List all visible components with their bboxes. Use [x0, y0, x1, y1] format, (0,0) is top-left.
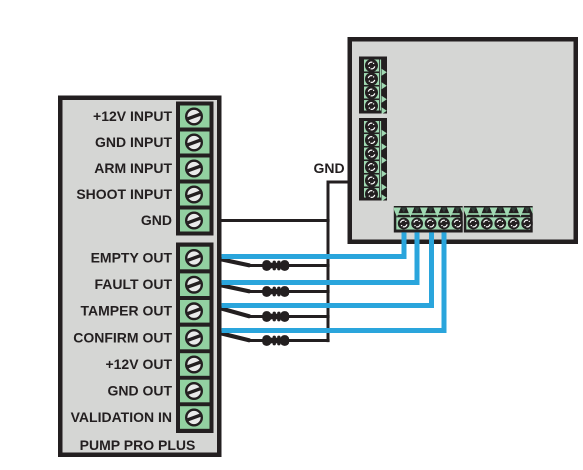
svg-text:ARM INPUT: ARM INPUT	[94, 160, 172, 176]
svg-text:TAMPER OUT: TAMPER OUT	[80, 303, 172, 319]
svg-text:+12V INPUT: +12V INPUT	[93, 108, 172, 124]
resistor R1	[262, 260, 289, 271]
svg-text:GND OUT: GND OUT	[107, 382, 172, 398]
svg-text:CONFIRM OUT: CONFIRM OUT	[73, 329, 172, 345]
panel terminal block C (bottom left 5-way)	[393, 206, 468, 233]
terminal GND INPUT	[95, 132, 210, 154]
svg-text:EMPTY OUT: EMPTY OUT	[91, 249, 173, 265]
wire EMPTY OUT to panel	[222, 232, 404, 256]
terminal ARM INPUT	[94, 158, 209, 180]
control panel box U1	[350, 39, 576, 242]
resistor R2	[262, 286, 289, 297]
svg-text:GND INPUT: GND INPUT	[95, 134, 172, 150]
device name label PUMP PRO PLUS	[80, 437, 196, 453]
wire lead to resistor R2	[220, 285, 330, 291]
terminal CONFIRM OUT	[73, 327, 209, 350]
wire GND from terminal GND to bus	[219, 219, 330, 222]
node GND label	[314, 160, 345, 176]
svg-text:SHOOT INPUT: SHOOT INPUT	[76, 186, 172, 202]
terminal VALIDATION IN	[71, 406, 210, 429]
wire lead to resistor R4	[220, 333, 330, 340]
resistor R3	[262, 311, 289, 322]
svg-text:FAULT OUT: FAULT OUT	[94, 276, 172, 292]
wire lead to resistor R3	[220, 308, 330, 316]
svg-text:PUMP PRO PLUS: PUMP PRO PLUS	[80, 437, 196, 453]
terminal block J2 (outputs)	[176, 243, 214, 434]
terminal FAULT OUT	[94, 273, 209, 296]
terminal GND	[141, 210, 210, 232]
terminal +12V INPUT	[93, 106, 209, 128]
terminal block J1 (inputs)	[176, 102, 214, 236]
wire GND bus vertical and into panel	[328, 182, 351, 342]
terminal GND OUT	[107, 380, 209, 403]
device box PUMP PRO PLUS	[60, 98, 219, 455]
svg-text:GND: GND	[314, 160, 345, 176]
wire TAMPER OUT to panel	[222, 232, 432, 305]
panel terminal block B (6-way)	[359, 118, 387, 201]
terminal EMPTY OUT	[91, 247, 210, 270]
svg-text:+12V OUT: +12V OUT	[105, 356, 172, 372]
terminal TAMPER OUT	[80, 300, 209, 323]
panel terminal block A (4-way)	[359, 57, 387, 115]
wire lead to resistor R1	[220, 259, 330, 265]
svg-text:VALIDATION IN: VALIDATION IN	[71, 409, 172, 425]
panel terminal block D (bottom right 5-way)	[463, 206, 538, 233]
terminal SHOOT INPUT	[76, 184, 209, 206]
svg-text:GND: GND	[141, 212, 172, 228]
terminal +12V OUT	[105, 353, 209, 376]
wire FAULT OUT to panel	[222, 232, 417, 282]
wire CONFIRM OUT to panel	[222, 232, 444, 330]
resistor R4	[262, 335, 289, 346]
